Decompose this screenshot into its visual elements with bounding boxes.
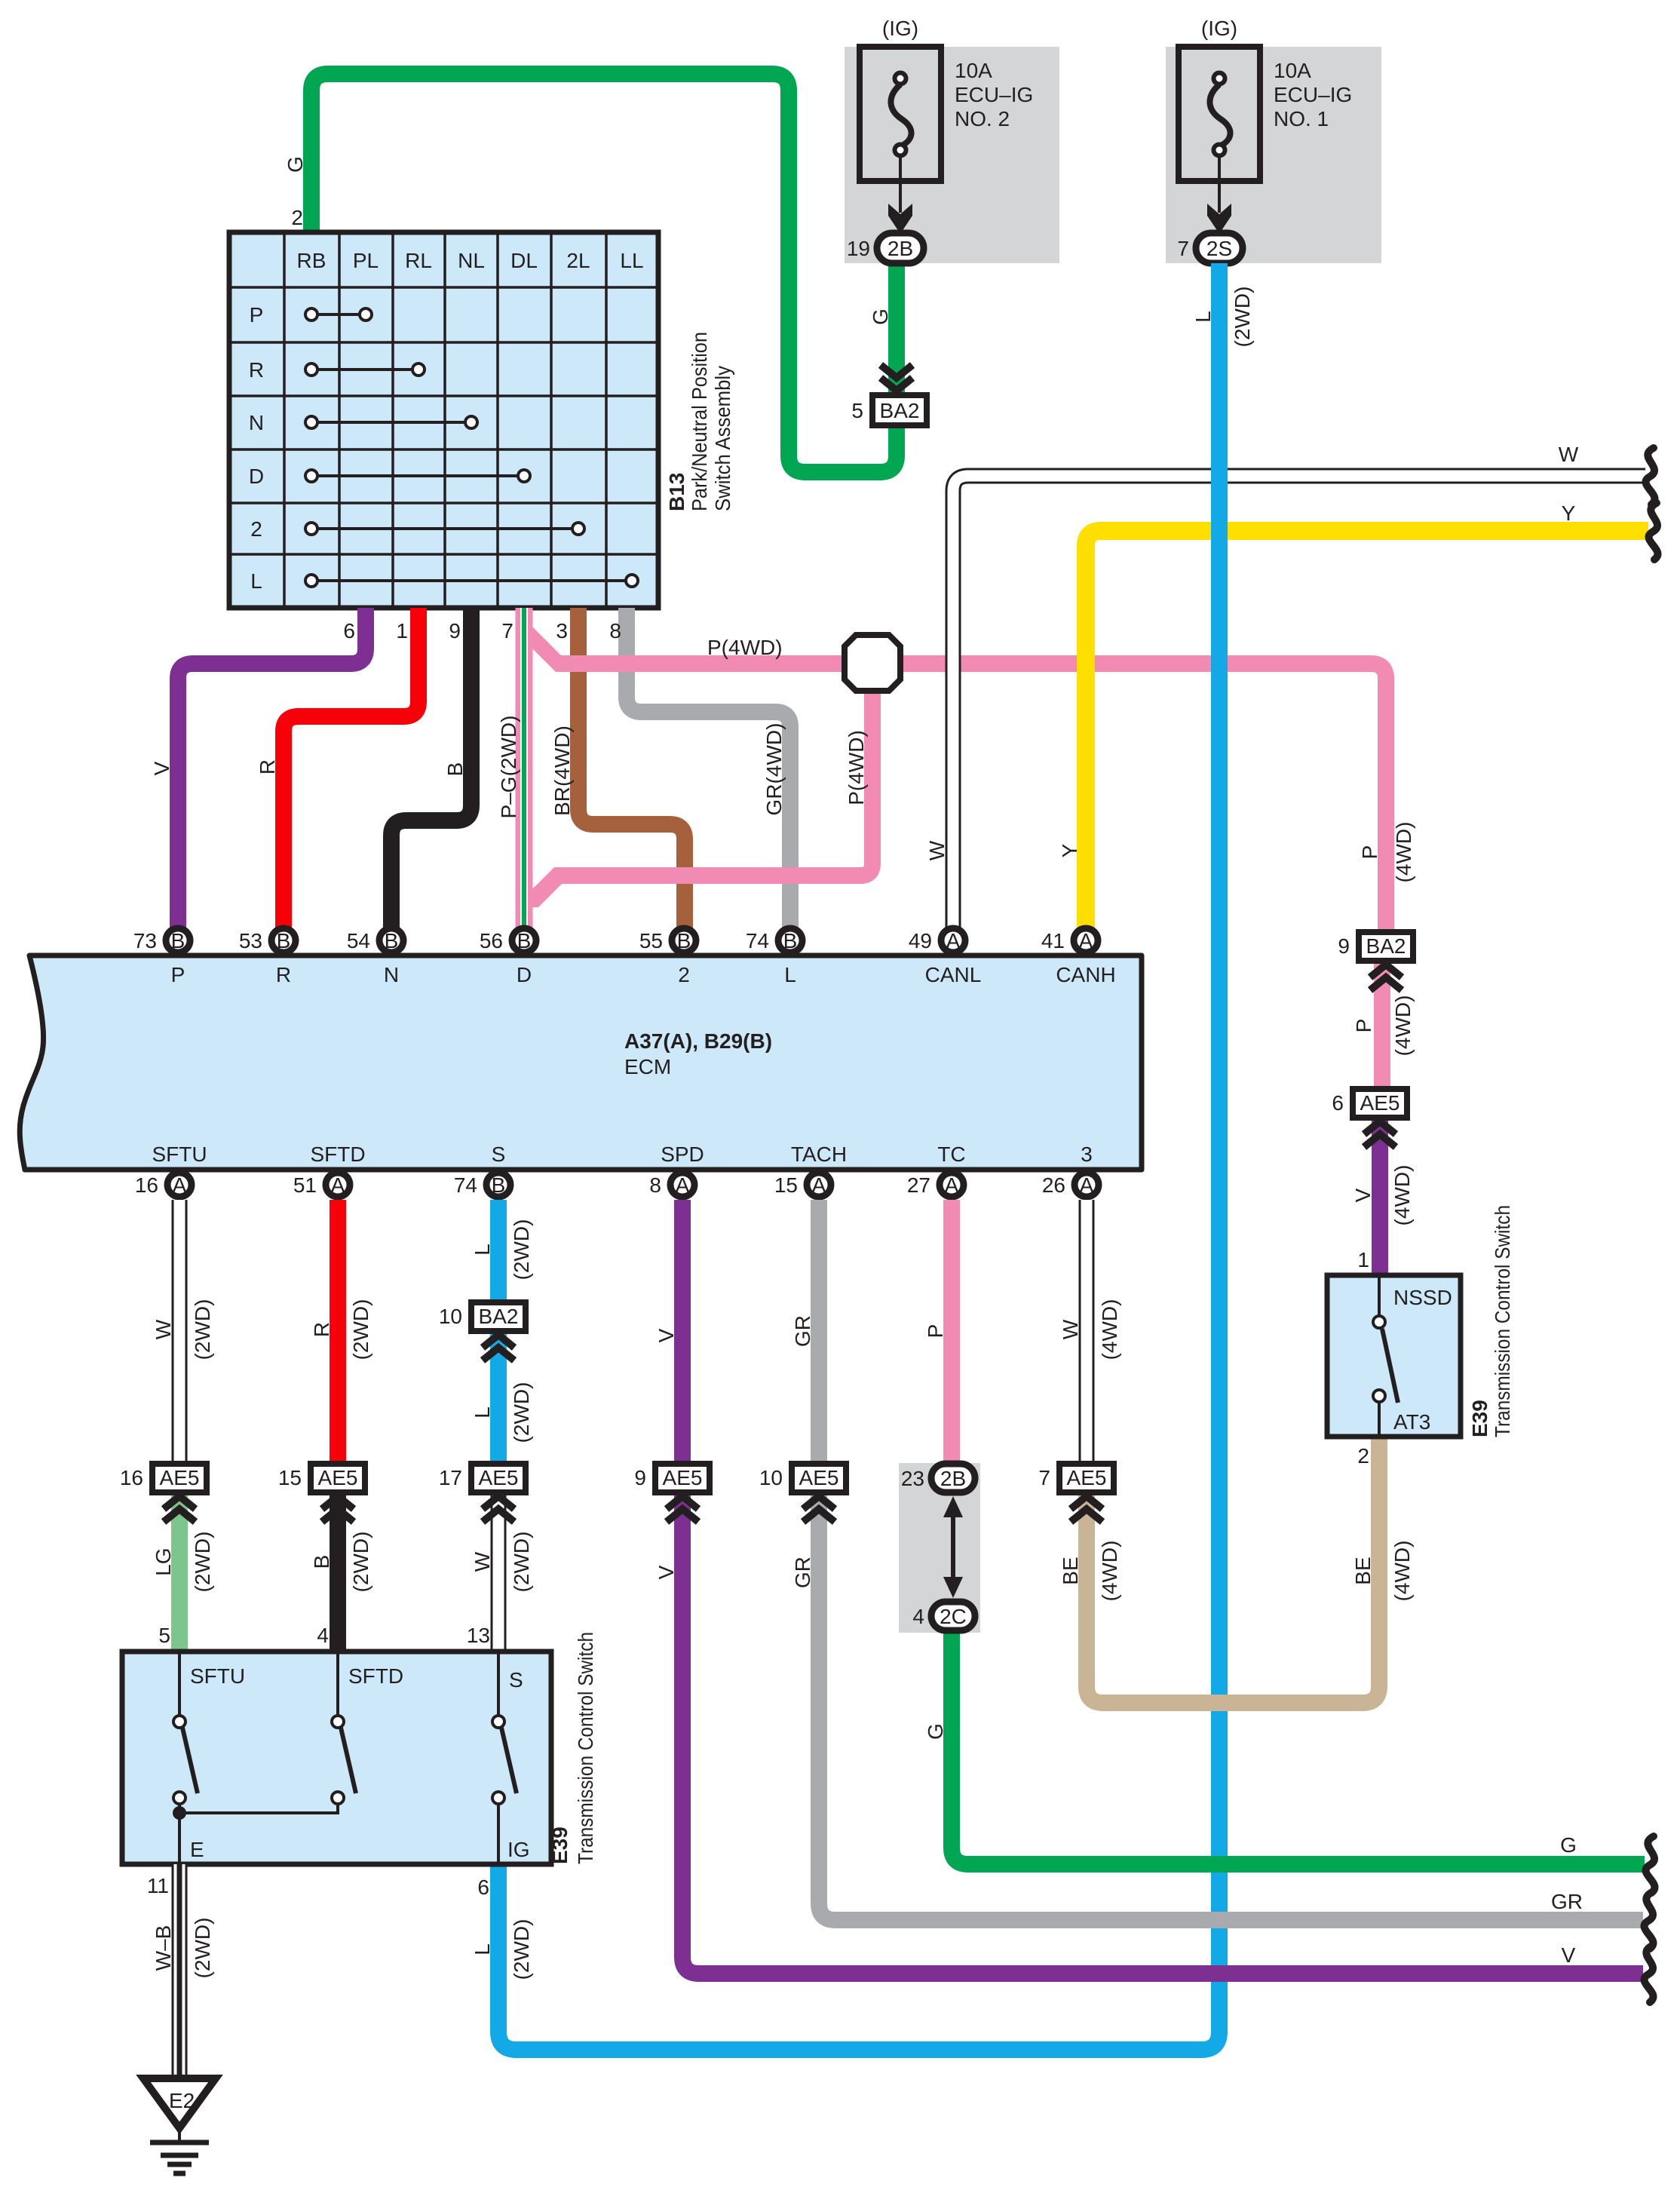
svg-text:AE5: AE5 [318,1466,358,1489]
wire GR from ECM TACH to right break [819,1200,1643,1920]
label P (4WD) right column upper [1358,822,1415,883]
svg-text:P: P [171,963,185,986]
svg-text:(2WD): (2WD) [191,1918,214,1979]
svg-text:2: 2 [250,517,262,541]
svg-text:S: S [492,1143,506,1166]
wire P-G(2WD) from B13 pin 7 to ECM D [516,608,533,935]
svg-text:NO. 2: NO. 2 [955,107,1010,130]
svg-text:D: D [249,465,264,488]
wire W(4WD) from ECM 3 to AE5 7 [1079,1200,1095,1464]
svg-text:G: G [869,308,892,325]
svg-text:7: 7 [501,619,514,643]
svg-text:6: 6 [1332,1091,1344,1115]
break symbol GR [1645,1892,1654,1949]
SFTD switch [332,1652,356,1804]
B13 contact row D [305,470,530,482]
svg-text:5: 5 [158,1624,170,1647]
S switch [492,1652,517,1864]
svg-text:41: 41 [1041,929,1065,952]
svg-text:AE5: AE5 [1067,1466,1107,1489]
svg-text:(2WD): (2WD) [191,1532,214,1593]
svg-text:B13: B13 [665,473,688,511]
ECM top pin 73B P [133,928,190,986]
svg-text:A: A [945,1173,959,1197]
connector oval 2C pin 4 [912,1602,975,1630]
ECM top pin 49A CANL [909,928,982,986]
svg-text:53: 53 [239,929,262,952]
connector box AE5 17 [439,1464,526,1522]
svg-text:V: V [655,1565,678,1579]
svg-text:19: 19 [847,237,870,260]
B13 contact row 2 [305,523,584,535]
svg-text:P: P [1358,845,1381,860]
wire P(4WD) from BA2 9 to AE5 6 [1374,959,1390,1089]
svg-text:W: W [925,840,949,860]
svg-text:2: 2 [678,963,690,986]
svg-text:8: 8 [649,1173,661,1197]
svg-text:BA2: BA2 [1366,934,1406,958]
svg-text:BE: BE [1351,1557,1375,1584]
svg-text:Park/Neutral Position: Park/Neutral Position [688,332,711,511]
svg-text:73: 73 [133,929,157,952]
wire L(2WD) from 2S to E39 IG [498,263,1219,2050]
connector box AE5 7 [1038,1464,1114,1522]
labels P (4WD) lower [1352,995,1415,1057]
B13 designator label [665,332,734,511]
svg-text:(2WD): (2WD) [191,1299,214,1360]
svg-text:NSSD: NSSD [1393,1286,1452,1309]
svg-text:2B: 2B [888,237,913,260]
B13 contact row L [305,575,638,587]
ECM A37(A) B29(B) body [20,955,1142,1170]
svg-text:SPD: SPD [661,1143,704,1166]
connector box AE5 6 [1332,1089,1407,1147]
svg-text:Transmission Control Switch: Transmission Control Switch [574,1632,597,1864]
E39 designator (bottom) [548,1632,597,1864]
fuse 10A ECU-IG NO. 2 [860,17,1033,234]
svg-text:SFTD: SFTD [310,1143,365,1166]
labels W (2WD) [152,1299,214,1360]
svg-text:NO. 1: NO. 1 [1274,107,1329,130]
connector oval 2B pin 23 [901,1464,975,1492]
svg-text:(2WD): (2WD) [349,1299,372,1360]
ECM bottom pin 15A TACH [774,1143,847,1197]
svg-text:10A: 10A [1274,59,1311,82]
svg-text:R: R [310,1322,333,1337]
svg-text:IG: IG [507,1838,530,1861]
svg-text:CANL: CANL [925,963,982,986]
labels V [655,1328,678,1579]
svg-text:D: D [517,963,532,986]
svg-text:16: 16 [135,1173,158,1197]
svg-text:27: 27 [907,1173,930,1197]
svg-text:2C: 2C [940,1605,967,1628]
connector box AE5 16 [120,1464,207,1522]
svg-text:10: 10 [439,1305,462,1328]
labels GR [791,1315,814,1588]
wire P(4WD) from splice to ECM D [558,671,872,876]
wire V from B13 pin 6 to ECM P [178,608,366,935]
svg-text:SFTD: SFTD [348,1664,403,1688]
connector box BA2 10 [439,1302,526,1360]
svg-text:13: 13 [467,1624,490,1647]
E39 internal labels [190,1664,530,1861]
svg-text:W: W [471,1551,494,1572]
svg-text:TC: TC [937,1143,965,1166]
ECM top pin 55B 2 [639,928,696,986]
svg-text:A: A [946,929,961,952]
svg-text:L: L [250,569,262,593]
svg-text:N: N [249,411,264,434]
svg-text:W: W [152,1319,175,1339]
svg-text:B: B [310,1555,333,1569]
svg-text:1: 1 [396,619,408,643]
svg-text:P(4WD): P(4WD) [707,636,783,659]
svg-text:7: 7 [1038,1466,1050,1489]
wire G from 2C to right break [952,1629,1645,1864]
svg-text:G: G [924,1723,947,1740]
labels L (2WD) at E39 IG [471,1919,533,1980]
svg-text:E: E [190,1838,204,1861]
svg-text:15: 15 [278,1466,302,1489]
svg-text:(4WD): (4WD) [1098,1299,1121,1360]
svg-text:V: V [150,761,173,775]
svg-text:55: 55 [639,929,663,952]
svg-text:AE5: AE5 [799,1466,839,1489]
ECM bottom pin 74B S [454,1143,510,1197]
svg-text:W: W [1059,1319,1082,1339]
svg-text:(IG): (IG) [1201,17,1237,40]
labels LG (2WD) [152,1532,214,1593]
svg-text:3: 3 [1081,1143,1093,1166]
svg-text:A: A [173,1173,187,1197]
svg-text:5: 5 [851,399,863,422]
svg-text:10A: 10A [955,59,992,82]
svg-text:(2WD): (2WD) [510,1919,533,1980]
NSSD switch contacts [1373,1275,1398,1437]
svg-text:E39: E39 [548,1827,572,1864]
wire BR(4WD) from B13 pin 3 to ECM 2 [578,608,685,935]
wire R(2WD) from ECM SFTD to AE5 15 [330,1200,346,1464]
svg-text:TACH: TACH [791,1143,847,1166]
wire W(2WD) from AE5 17 to E39 S [491,1491,507,1652]
svg-text:15: 15 [774,1173,798,1197]
svg-text:(2WD): (2WD) [349,1532,372,1593]
svg-text:L: L [471,1244,494,1256]
connector oval 2B pin 19 [847,233,924,263]
svg-text:P: P [250,303,264,327]
wire Y from ECM CANH to right break [1086,531,1648,935]
wire P from ECM TC to 2B 23 [943,1200,960,1464]
svg-text:LL: LL [620,249,643,272]
Transmission Control Switch NSSD body E39 [1327,1275,1461,1437]
connector 2B-2C shading [899,1463,980,1633]
E39 designator (NSSD) [1468,1205,1514,1437]
wire G from B13 pin 2 to BA2 connector [311,74,897,472]
svg-text:A: A [676,1173,690,1197]
svg-text:B: B [783,929,798,952]
break symbol V [1645,1946,1654,2002]
connector box BA2 9 [1338,932,1413,990]
svg-text:7: 7 [1177,237,1189,260]
svg-text:B: B [385,929,399,952]
svg-text:(2WD): (2WD) [510,1532,533,1593]
svg-text:(IG): (IG) [882,17,918,40]
wire BE(4WD) from AE5 7 to NSSD pin 2 [1087,1437,1379,1703]
svg-text:B: B [492,1173,506,1197]
svg-text:LG: LG [152,1547,175,1575]
svg-text:4: 4 [912,1605,924,1628]
break symbol W [1646,448,1655,505]
svg-text:GR: GR [1551,1890,1583,1913]
connector box BA2 5 [872,395,927,425]
ECM bottom pin 16A SFTU [135,1143,207,1197]
svg-text:9: 9 [634,1466,646,1489]
svg-text:P(4WD): P(4WD) [845,730,868,805]
svg-text:P: P [924,1324,947,1339]
ECM top pin 74B L [746,928,802,986]
svg-text:4: 4 [317,1624,329,1647]
svg-text:A: A [331,1173,345,1197]
svg-text:GR: GR [791,1557,814,1588]
svg-text:2S: 2S [1206,237,1232,260]
fuse block shading F2 [1166,47,1381,263]
svg-text:(4WD): (4WD) [1392,822,1415,883]
svg-text:2: 2 [291,206,303,229]
wire LG(2WD) from AE5 16 to E39 SFTU [171,1491,188,1652]
svg-text:9: 9 [1338,934,1350,958]
svg-text:(4WD): (4WD) [1391,995,1415,1057]
connector box AE5 10 [759,1464,846,1522]
svg-text:2B: 2B [940,1467,966,1490]
labels BE (4WD) left [1059,1541,1121,1602]
svg-text:R: R [249,358,264,382]
svg-text:B: B [677,929,691,952]
svg-text:23: 23 [901,1467,924,1490]
svg-text:BR(4WD): BR(4WD) [550,725,574,816]
ECM top pin 41A CANH [1041,928,1116,986]
svg-text:W–B: W–B [152,1925,175,1971]
svg-text:PL: PL [353,249,379,272]
link SFTU-SFTD common [179,1805,338,1813]
break symbol G [1646,1836,1655,1893]
svg-text:L: L [784,963,796,986]
wire W from ECM CANL to right break [953,476,1645,935]
svg-text:AE5: AE5 [663,1466,703,1489]
svg-text:6: 6 [477,1876,489,1899]
svg-text:(4WD): (4WD) [1390,1165,1414,1226]
svg-text:ECU–IG: ECU–IG [955,83,1033,106]
svg-text:RB: RB [297,249,326,272]
double arrow between 2B and 2C [943,1496,963,1598]
wire B from B13 pin 9 to ECM N [391,608,471,935]
svg-text:A: A [1080,1173,1094,1197]
svg-text:26: 26 [1042,1173,1065,1197]
svg-text:SFTU: SFTU [190,1664,245,1688]
ECM bottom pin 8A SPD [649,1143,704,1197]
svg-text:3: 3 [556,619,568,643]
svg-text:E39: E39 [1468,1400,1491,1437]
svg-text:49: 49 [909,929,932,952]
svg-text:11: 11 [147,1874,169,1897]
svg-text:(2WD): (2WD) [1231,287,1254,348]
svg-text:74: 74 [746,929,769,952]
fuse block shading F1 [845,47,1059,263]
svg-text:P–G(2WD): P–G(2WD) [497,716,520,819]
svg-text:AT3: AT3 [1393,1410,1430,1434]
svg-text:R: R [256,759,279,774]
svg-text:N: N [384,963,399,986]
connector chevron above BA2 5 [881,365,912,391]
svg-text:B: B [517,929,532,952]
svg-text:B: B [171,929,185,952]
svg-text:2: 2 [1357,1444,1369,1468]
svg-text:NL: NL [458,249,485,272]
svg-text:CANH: CANH [1056,963,1115,986]
svg-text:RL: RL [405,249,432,272]
svg-text:ECM: ECM [624,1055,671,1078]
SFTU switch [173,1652,198,1864]
svg-text:DL: DL [510,249,538,272]
splice octagon [845,635,900,691]
wire B(2WD) from AE5 15 to E39 SFTD [330,1491,346,1652]
labels BE (4WD) right [1351,1541,1414,1602]
B13 column labels [297,249,644,272]
svg-text:17: 17 [439,1466,462,1489]
svg-text:L: L [1191,311,1215,323]
B13 contact row R [305,363,425,376]
ECM bottom pin 51A SFTD [293,1143,366,1197]
svg-text:L: L [471,1943,494,1955]
svg-text:AE5: AE5 [1360,1091,1400,1115]
labels L (2WD) upper [471,1219,533,1281]
svg-text:74: 74 [454,1173,477,1197]
wire P(4WD) branch from pin 7 to splice and BA2 9 [532,627,561,672]
ECM top pin 56B D [480,928,536,986]
Transmission Control Switch E39 body [122,1652,551,1864]
connector box AE5 15 [278,1464,365,1522]
labels V (4WD) [1351,1165,1414,1226]
svg-text:(2WD): (2WD) [510,1219,533,1281]
svg-text:51: 51 [293,1173,317,1197]
svg-text:E2: E2 [169,2089,195,2112]
svg-text:L: L [471,1406,494,1419]
svg-text:8: 8 [609,619,621,643]
break symbol Y [1649,503,1658,560]
svg-text:GR(4WD): GR(4WD) [762,723,786,816]
svg-text:BA2: BA2 [479,1305,519,1328]
wire R from B13 pin 1 to ECM R [284,608,418,935]
B13 contact row N [305,416,477,428]
svg-text:2L: 2L [566,249,590,272]
B13 contact row P [305,308,372,321]
svg-text:Transmission Control Switch: Transmission Control Switch [1491,1205,1514,1437]
labels W (2WD) lower [471,1532,533,1593]
svg-text:56: 56 [480,929,503,952]
svg-text:A: A [1079,929,1093,952]
svg-text:V: V [1351,1188,1375,1202]
Park/Neutral Position Switch Assembly B13 grid [229,232,658,608]
svg-text:BA2: BA2 [880,399,920,422]
svg-text:G: G [284,156,307,173]
svg-text:GR: GR [791,1315,814,1347]
svg-text:W: W [1559,443,1579,466]
svg-text:AE5: AE5 [160,1466,200,1489]
labels R (2WD) [310,1299,372,1360]
svg-text:AE5: AE5 [479,1466,519,1489]
wire V from ECM SPD to right break [682,1200,1643,1974]
ECM top pin 54B N [347,928,403,986]
svg-text:V: V [1562,1943,1576,1967]
svg-text:54: 54 [347,929,370,952]
connector box AE5 9 [634,1464,710,1522]
B13 row labels [249,303,264,593]
labels L (2WD) middle [471,1382,533,1443]
connector oval 2S pin 7 [1177,233,1243,263]
svg-text:Y: Y [1058,843,1081,857]
svg-text:A: A [812,1173,826,1197]
ECM name label [624,1029,772,1078]
svg-text:BE: BE [1059,1557,1082,1584]
svg-text:P: P [1352,1019,1375,1033]
svg-text:ECU–IG: ECU–IG [1274,83,1352,106]
svg-text:G: G [1560,1833,1577,1857]
labels W-B (2WD) [152,1918,214,1979]
labels L (2WD) at 2S [1191,287,1254,348]
svg-text:16: 16 [120,1466,143,1489]
svg-text:Switch Assembly: Switch Assembly [711,366,734,511]
svg-text:10: 10 [759,1466,783,1489]
svg-text:A37(A), B29(B): A37(A), B29(B) [624,1029,772,1053]
wire V(4WD) from AE5 6 to NSSD pin 1 [1372,1116,1388,1275]
svg-text:SFTU: SFTU [152,1143,207,1166]
labels W (4WD) [1059,1299,1121,1360]
labels B (2WD) [310,1532,372,1593]
wire L(2WD) from ECM S to BA2 10 and AE5 17 [490,1200,507,1477]
svg-text:R: R [276,963,291,986]
wire W-B(2WD) from E39 E to ground E2 [172,1864,188,2078]
svg-text:1: 1 [1357,1248,1369,1271]
fuse 10A ECU-IG NO. 1 [1179,17,1352,234]
wire GR(4WD) from B13 pin 8 to ECM L [627,608,790,935]
svg-text:V: V [655,1328,678,1342]
ECM bottom pin 26A 3 [1042,1143,1099,1197]
svg-text:B: B [443,762,467,777]
svg-text:(4WD): (4WD) [1098,1541,1121,1602]
svg-text:(2WD): (2WD) [510,1382,533,1443]
svg-text:B: B [277,929,291,952]
svg-text:Y: Y [1562,501,1576,525]
ECM top pin 53B R [239,928,296,986]
svg-text:6: 6 [343,619,355,643]
svg-text:9: 9 [449,619,461,643]
ground E2 [143,2078,216,2173]
svg-text:(4WD): (4WD) [1390,1541,1414,1602]
wire W(2WD) from ECM SFTU to AE5 16 [172,1200,188,1464]
svg-text:S: S [509,1668,523,1692]
ECM bottom pin 27A TC [907,1143,966,1197]
